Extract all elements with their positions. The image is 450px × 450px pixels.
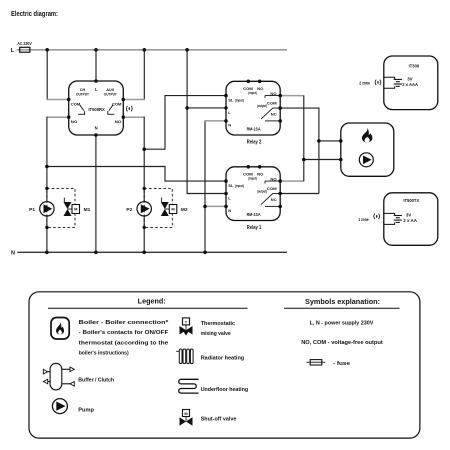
svg-text:AC 230V: AC 230V (17, 41, 32, 46)
legend buffer/clutch icon (43, 363, 74, 390)
thermostat IT500TX box (384, 193, 438, 246)
wire drop L to relay1 L with tap relay2 L (187, 50, 226, 194)
wire relay1 NO stub (gray) (280, 180, 304, 182)
legend shut-off valve icon (180, 410, 193, 426)
svg-text:Electric diagram:: Electric diagram: (11, 11, 58, 18)
svg-text:P1: P1 (29, 207, 35, 213)
legend outer box (29, 292, 420, 438)
svg-text:IT500RX: IT500RX (88, 107, 105, 113)
pump P1 (40, 202, 54, 216)
wire gray stub right COM (123, 99, 145, 101)
valve M2 dashed box (144, 188, 172, 227)
svg-text:M1: M1 (84, 207, 91, 213)
svg-text:L, N - power supply 230V: L, N - power supply 230V (310, 320, 374, 326)
svg-text:COM: COM (267, 100, 277, 105)
thermostat IT300 box (384, 56, 438, 110)
signal icon at IT500TX (374, 214, 380, 219)
svg-text:(output): (output) (257, 190, 267, 194)
wire drop L to IT500RX right COM (143, 50, 145, 100)
svg-text:N: N (11, 250, 15, 256)
svg-text:RM-1SA: RM-1SA (247, 126, 261, 132)
svg-text:boiler's instructions): boiler's instructions) (79, 351, 129, 357)
svg-text:SL: SL (228, 98, 234, 103)
svg-text:CH: CH (80, 88, 86, 92)
wire P1 branch vertical (46, 117, 48, 253)
wire IT500RX left NO stub (gray) (47, 116, 69, 118)
wire relay2 NO stub (gray) (280, 95, 304, 97)
svg-text:Relay 1: Relay 1 (247, 225, 262, 231)
relay RM-1SA Relay 1 (226, 167, 280, 221)
svg-text:1 zone: 1 zone (358, 217, 368, 223)
legend thermostatic mixing valve icon (180, 318, 193, 336)
svg-text:Relay 2: Relay 2 (247, 140, 262, 146)
svg-text:2 x AAA: 2 x AAA (402, 82, 418, 87)
svg-text:IT300: IT300 (409, 63, 420, 68)
wire relay2 SL route (144, 96, 226, 150)
svg-text:Boiler - Boiler connection*: Boiler - Boiler connection* (79, 320, 170, 326)
wire P2 branch vertical (143, 117, 145, 253)
wire gray stub to left COM (47, 99, 69, 101)
svg-text:COM: COM (112, 103, 121, 107)
relay2 internal contact (265, 96, 280, 98)
svg-text:SL: SL (228, 183, 234, 188)
wire relay1 SL route (47, 167, 226, 182)
svg-text:NO, COM - voltage-free output: NO, COM - voltage-free output (301, 340, 383, 346)
pump icon in boiler box (359, 153, 373, 167)
svg-text:- fuse: - fuse (333, 361, 351, 367)
svg-text:3V: 3V (406, 213, 411, 218)
svg-text:- Boiler's contacts for ON/OFF: - Boiler's contacts for ON/OFF (79, 330, 169, 336)
svg-text:thermostat (according to the: thermostat (according to the (79, 340, 169, 346)
shut-off valve M2 (161, 198, 177, 216)
legend boiler icon (51, 318, 69, 340)
wire relay2 N stub (gray) (205, 120, 227, 122)
fuse F1 (20, 47, 30, 52)
svg-text:Pump: Pump (78, 408, 94, 414)
wire relay N shared vertical (204, 120, 206, 252)
svg-text:RM-1SA: RM-1SA (247, 212, 261, 218)
thermostat receiver IT500RX (69, 81, 124, 135)
battery IT300 (384, 77, 402, 88)
svg-text:OUTPUT: OUTPUT (104, 93, 118, 97)
switch left (80, 105, 84, 111)
legend pump icon (52, 399, 67, 414)
svg-text:AUX: AUX (106, 88, 115, 92)
svg-text:COM: COM (267, 186, 277, 191)
signal icon at IT500RX (126, 106, 132, 111)
svg-text:Buffer / Clutch: Buffer / Clutch (78, 377, 114, 383)
svg-text:Underfloor heating: Underfloor heating (201, 387, 249, 393)
svg-text:3V: 3V (407, 77, 412, 82)
svg-text:(input): (input) (235, 184, 244, 188)
relay1 internal contact (265, 181, 280, 183)
pump P2 (137, 202, 151, 216)
svg-text:IT500TX: IT500TX (403, 198, 420, 203)
svg-text:2 zone: 2 zone (359, 81, 370, 87)
wire relay2 L stub (187, 107, 226, 109)
shut-off valve M1 (64, 198, 80, 216)
svg-text:mixing valve: mixing valve (201, 331, 232, 337)
svg-text:OUTPUT: OUTPUT (76, 93, 90, 97)
svg-text:NO: NO (257, 86, 263, 91)
wire drop L to IT500RX top L (95, 50, 97, 81)
svg-text:NC: NC (271, 197, 277, 202)
svg-text:(input): (input) (235, 99, 244, 103)
svg-text:COM: COM (71, 103, 80, 107)
relay RM-1SA Relay 2 (226, 81, 280, 135)
battery IT500TX (384, 213, 402, 224)
svg-text:Radiator heating: Radiator heating (201, 356, 245, 362)
svg-text:NC: NC (271, 112, 277, 117)
wire drop L to IT500RX left COM (46, 50, 48, 100)
svg-text:(input): (input) (248, 176, 257, 180)
legend radiator icon (176, 349, 193, 364)
switch right (109, 105, 113, 111)
boiler box (341, 123, 394, 176)
svg-text:M2: M2 (181, 207, 188, 213)
svg-text:N: N (228, 123, 231, 128)
svg-text:Shut-off valve: Shut-off valve (201, 417, 237, 423)
svg-text:Symbols explanation:: Symbols explanation: (305, 299, 380, 306)
wire L rail (gray) (17, 49, 30, 51)
wire N rail (17, 251, 287, 253)
svg-text:2 x AA: 2 x AA (403, 218, 417, 223)
flame icon (362, 128, 373, 143)
svg-text:(input): (input) (248, 91, 257, 95)
svg-text:NO: NO (71, 120, 78, 124)
svg-text:Thermostatic: Thermostatic (201, 321, 236, 327)
svg-text:Legend:: Legend: (138, 298, 166, 305)
svg-text:P2: P2 (126, 207, 132, 213)
signal icon at IT300 (375, 80, 381, 85)
wire relay1 N stub (gray) (205, 205, 227, 207)
svg-text:L: L (95, 87, 98, 92)
wire NO bus vertical to boiler (303, 96, 305, 182)
valve M1 dashed box (47, 188, 75, 227)
wire COM bus: relay2 COM stub, vertical, relay1 COM stub, boiler feed (280, 107, 319, 109)
symbols fuse (307, 360, 326, 365)
svg-text:(output): (output) (257, 104, 267, 108)
wire IT500RX right NO stub (gray) (123, 116, 145, 118)
svg-text:N: N (228, 208, 231, 213)
svg-text:NO: NO (115, 120, 122, 124)
svg-text:L: L (11, 48, 15, 54)
legend underfloor icon (179, 379, 199, 393)
svg-text:NO: NO (257, 171, 263, 176)
svg-text:N: N (95, 125, 98, 130)
wire IT500RX N to N rail (95, 135, 97, 252)
